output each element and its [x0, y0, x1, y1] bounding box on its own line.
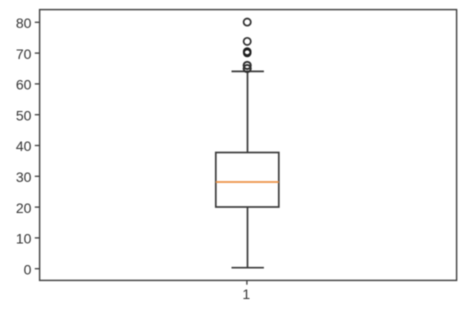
y tick 0	[35, 268, 40, 270]
y tick 70	[35, 52, 40, 54]
bold pair white centre	[245, 50, 250, 54]
median line	[216, 181, 279, 183]
y tick 30	[35, 175, 40, 177]
svg-text:10: 10	[16, 231, 32, 247]
y tick 20	[35, 206, 40, 208]
lower whisker	[247, 207, 249, 268]
outlier ~80	[244, 19, 251, 26]
outlier ~74	[244, 38, 251, 45]
y tick 80	[35, 21, 40, 23]
outlier ~71 (bold pair upper disc)	[243, 47, 252, 56]
svg-text:40: 40	[16, 138, 32, 154]
y tick 40	[35, 145, 40, 147]
outlier ~65	[244, 65, 251, 72]
y tick 50	[35, 114, 40, 116]
svg-text:20: 20	[16, 200, 32, 216]
box	[216, 153, 279, 208]
svg-text:1: 1	[242, 286, 250, 302]
x tick 1	[246, 281, 248, 285]
svg-text:30: 30	[16, 169, 32, 185]
y tick 60	[35, 83, 40, 85]
svg-text:50: 50	[16, 107, 32, 123]
svg-text:80: 80	[16, 15, 32, 31]
outlier ~70 (bold pair lower disc)	[243, 49, 252, 58]
svg-text:70: 70	[16, 46, 32, 62]
axes frame	[40, 10, 457, 281]
y tick 10	[35, 237, 40, 239]
svg-text:60: 60	[16, 77, 32, 93]
svg-text:0: 0	[24, 261, 32, 277]
outlier ~66	[244, 62, 251, 69]
upper cap	[232, 70, 264, 72]
upper whisker	[247, 71, 249, 152]
lower cap	[232, 267, 264, 269]
